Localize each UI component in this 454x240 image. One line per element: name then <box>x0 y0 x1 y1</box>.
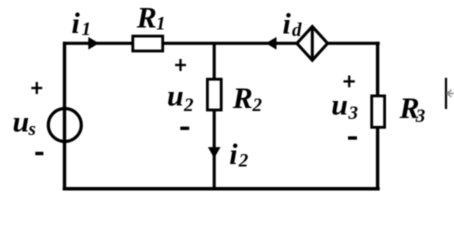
svg-text:i: i <box>72 7 81 40</box>
svg-text:2: 2 <box>252 95 263 116</box>
svg-text:R: R <box>232 82 253 115</box>
cursor arrow <box>447 90 454 97</box>
wire left vertical <box>63 42 66 191</box>
svg-text:1: 1 <box>82 19 92 40</box>
wire bottom <box>63 187 380 191</box>
minus of us <box>35 152 43 155</box>
svg-text:u: u <box>331 88 348 121</box>
svg-text:R: R <box>136 1 157 34</box>
svg-text:i: i <box>229 138 238 171</box>
current arrow id <box>266 37 277 50</box>
svg-text:u: u <box>167 80 184 113</box>
wire middle vertical <box>213 43 216 189</box>
svg-text:u: u <box>13 106 30 139</box>
voltage source us circle <box>48 109 81 142</box>
svg-text:i: i <box>283 7 292 40</box>
svg-text:s: s <box>28 119 36 140</box>
plus of us <box>31 82 42 94</box>
svg-text:3: 3 <box>415 106 426 127</box>
resistor R3 <box>372 96 385 127</box>
minus of u2 <box>180 127 189 130</box>
plus of u3 <box>344 76 355 88</box>
wire top right <box>327 42 380 45</box>
minus of u3 <box>348 136 357 139</box>
wire top <box>63 42 298 45</box>
svg-text:d: d <box>292 20 302 41</box>
wire right vertical <box>376 42 379 191</box>
dependent source diamond <box>297 27 328 61</box>
current arrow i1 <box>88 37 99 50</box>
svg-text:3: 3 <box>348 103 359 124</box>
current arrow i2 <box>208 147 221 158</box>
svg-text:2: 2 <box>238 150 249 171</box>
resistor R1 <box>133 36 163 51</box>
svg-text:1: 1 <box>156 13 166 34</box>
plus of u2 <box>175 59 186 71</box>
svg-text:2: 2 <box>183 95 194 116</box>
cursor bar <box>445 78 447 109</box>
dependent source inner line <box>311 27 314 61</box>
resistor R2 <box>207 79 221 110</box>
